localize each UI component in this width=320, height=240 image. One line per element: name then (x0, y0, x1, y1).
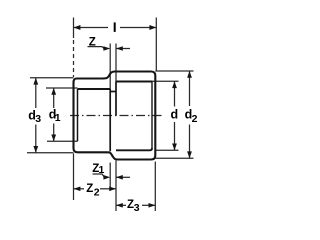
svg-text:2: 2 (94, 186, 100, 198)
svg-text:1: 1 (99, 164, 105, 176)
svg-text:2: 2 (192, 113, 198, 125)
svg-text:d: d (171, 108, 179, 122)
svg-text:3: 3 (134, 202, 140, 214)
svg-text:3: 3 (35, 113, 41, 125)
svg-text:Z: Z (86, 183, 93, 195)
svg-text:Z: Z (89, 37, 96, 49)
svg-text:1: 1 (55, 112, 61, 124)
